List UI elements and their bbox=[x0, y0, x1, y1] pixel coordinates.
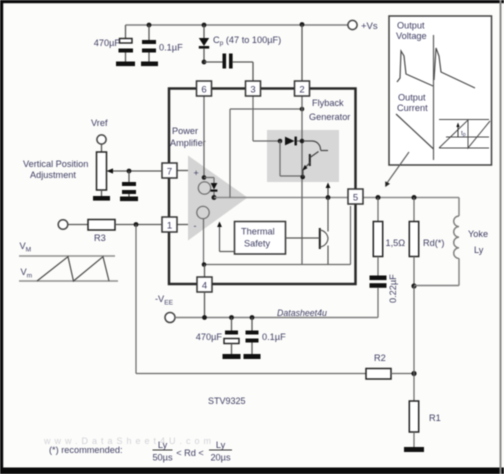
label Output Voltage bbox=[396, 21, 427, 42]
svg-text:2: 2 bbox=[299, 85, 304, 96]
svg-text:(*) recommended:: (*) recommended: bbox=[49, 445, 123, 455]
diode D internal bbox=[204, 178, 217, 198]
diode D1 bbox=[199, 25, 209, 62]
ground for 0.1uF top bbox=[141, 62, 158, 67]
svg-text:50µs: 50µs bbox=[152, 453, 173, 463]
label Vertical Position Adjustment bbox=[23, 159, 88, 180]
svg-text:Vref: Vref bbox=[91, 118, 108, 128]
svg-text:Flyback: Flyback bbox=[312, 98, 344, 108]
svg-text:Amplifier: Amplifier bbox=[170, 138, 206, 148]
node junction flyback diode anode bbox=[278, 139, 283, 144]
leader arrow from inset to pin5 node bbox=[385, 152, 409, 187]
formula recommended bbox=[49, 440, 232, 463]
pin 1 bbox=[162, 217, 177, 232]
svg-text:R3: R3 bbox=[94, 233, 106, 243]
ground for 470uF bottom bbox=[223, 354, 241, 359]
wire R2 to divider node bbox=[391, 373, 414, 375]
wire pin4 to -VEE rail bbox=[204, 292, 206, 318]
flyback generator shaded block bbox=[267, 130, 339, 182]
node junction Rd bottom bbox=[411, 283, 416, 288]
terminal Vref bbox=[97, 135, 106, 144]
svg-text:1: 1 bbox=[167, 221, 172, 232]
svg-text:Ly: Ly bbox=[158, 440, 168, 450]
wire pin2 feed to amp top bbox=[230, 109, 302, 198]
svg-text:5: 5 bbox=[353, 193, 358, 204]
wire pin1 to amp bbox=[177, 224, 188, 226]
wire pin2 to +Vs rail bbox=[301, 25, 303, 82]
node junction pin1 / feedback bbox=[134, 222, 139, 227]
wire thermal safety right bbox=[286, 237, 320, 239]
wire R1 to ground bbox=[413, 432, 415, 447]
node junction top rail / diode bbox=[202, 23, 207, 28]
wire lower rail to pin4 bbox=[203, 206, 351, 265]
ground for 0.1uF bottom bbox=[244, 354, 261, 359]
svg-text:1,5Ω: 1,5Ω bbox=[386, 238, 406, 248]
potentiometer vertical position bbox=[97, 144, 107, 196]
svg-text:Adjustment: Adjustment bbox=[30, 170, 76, 180]
capacitor C 470uF top bbox=[119, 25, 134, 62]
capacitor C 470uF bottom bbox=[224, 318, 239, 355]
svg-text:4: 4 bbox=[202, 281, 207, 292]
svg-text:Current: Current bbox=[397, 103, 428, 113]
node junction diode / Cp / pin6 bbox=[202, 60, 207, 65]
pin 4 bbox=[197, 277, 212, 292]
svg-text:Ly: Ly bbox=[474, 245, 484, 255]
label Power Amplifier bbox=[170, 126, 206, 148]
resistor Rd bbox=[409, 198, 418, 287]
svg-text:470µF: 470µF bbox=[196, 332, 223, 342]
capacitor Cp bbox=[204, 54, 253, 69]
svg-text:470µF: 470µF bbox=[94, 38, 121, 48]
terminal input VM bbox=[58, 220, 68, 230]
svg-text:Ly: Ly bbox=[216, 440, 226, 450]
svg-text:Rd(*): Rd(*) bbox=[423, 238, 444, 248]
capacitor C 0.22uF bbox=[370, 257, 387, 318]
svg-text:Datasheet4u: Datasheet4u bbox=[277, 308, 327, 318]
wire pin7 to amp bbox=[177, 170, 188, 172]
ground for 470uF top bbox=[116, 62, 135, 67]
resistor R1 bbox=[409, 401, 418, 432]
current source I2 bbox=[197, 206, 209, 218]
svg-text:Output: Output bbox=[397, 21, 425, 31]
wire sense arrow above output rail bbox=[326, 183, 331, 198]
wire wiper to pin7 bbox=[107, 168, 163, 173]
waveform output current bbox=[396, 114, 434, 149]
svg-text:3: 3 bbox=[250, 85, 255, 96]
capacitor C 0.1uF top bbox=[142, 25, 156, 62]
current source I1 bbox=[198, 182, 210, 194]
svg-text:+Vs: +Vs bbox=[361, 21, 378, 32]
wire pin3 to flyback bbox=[253, 96, 280, 141]
svg-text:0.1µF: 0.1µF bbox=[262, 332, 286, 342]
node junction bias bbox=[202, 175, 207, 180]
op-amp U1 power amplifier triangle bbox=[188, 156, 248, 241]
inset waveform box bbox=[389, 16, 492, 165]
wire pin4 internal bbox=[204, 265, 206, 278]
node junction pin4 net bbox=[202, 262, 207, 267]
wire top +Vs rail bbox=[126, 24, 349, 26]
node junction pin2 line bbox=[300, 107, 305, 112]
node junction Rd top bbox=[412, 195, 417, 200]
svg-text:Thermal: Thermal bbox=[241, 227, 275, 237]
svg-text:Vertical Position: Vertical Position bbox=[23, 159, 88, 169]
ground for R1 bbox=[404, 447, 424, 452]
capacitor C pin7 filter bbox=[122, 171, 136, 197]
node junction divider bbox=[411, 371, 416, 376]
svg-text:6: 6 bbox=[201, 85, 206, 96]
svg-text:-: - bbox=[194, 221, 197, 231]
svg-text:Output: Output bbox=[398, 93, 426, 103]
wire output rail to pin 5 bbox=[214, 197, 459, 199]
label Flyback Generator bbox=[309, 98, 350, 122]
svg-text:7: 7 bbox=[167, 167, 172, 178]
wire flyback lower loop bbox=[280, 141, 302, 176]
svg-text:Safety: Safety bbox=[244, 239, 270, 249]
svg-text:STV9325: STV9325 bbox=[208, 396, 246, 406]
node junction amp output bbox=[212, 195, 217, 200]
terminal +Vs bbox=[348, 20, 378, 32]
node junction flyback emitter bbox=[300, 175, 305, 180]
pin 7 bbox=[162, 163, 177, 178]
pin 2 bbox=[295, 81, 310, 96]
pin 5 bbox=[348, 189, 363, 204]
wire Cp to pin3 bbox=[252, 62, 254, 82]
wire R3 to pin1 bbox=[115, 224, 162, 226]
inductor yoke Ly bbox=[414, 198, 459, 286]
wire divider to R1 bbox=[413, 286, 415, 401]
waveform axis line bbox=[433, 35, 435, 160]
resistor 1.5 ohm bbox=[373, 198, 382, 257]
transistor Q2 output lower bbox=[320, 198, 328, 265]
waveform current detail inset bbox=[439, 120, 490, 149]
node junction top rail / 0.1uF bbox=[147, 23, 152, 28]
svg-text:0.22µF: 0.22µF bbox=[388, 274, 398, 303]
terminal -VEE bbox=[165, 313, 175, 323]
ground for pin7 filter cap bbox=[120, 197, 138, 202]
svg-text:< Rd <: < Rd < bbox=[176, 448, 204, 458]
svg-text:R1: R1 bbox=[429, 413, 441, 423]
svg-text:tp: tp bbox=[461, 130, 466, 138]
capacitor C 0.1uF bottom bbox=[246, 318, 259, 355]
node junction output rail sense bbox=[326, 195, 331, 200]
resistor R3 bbox=[88, 220, 115, 231]
diode D flyback bbox=[285, 137, 302, 146]
ground for potentiometer bbox=[93, 196, 110, 201]
label Yoke Ly bbox=[468, 229, 488, 255]
pin 6 bbox=[197, 81, 212, 96]
svg-text:Voltage: Voltage bbox=[396, 31, 427, 41]
wire input to R3 bbox=[68, 224, 88, 226]
waveform input sawtooth bbox=[19, 256, 118, 281]
svg-text:Yoke: Yoke bbox=[468, 229, 488, 239]
svg-text:Power: Power bbox=[172, 126, 198, 136]
svg-text:20µs: 20µs bbox=[210, 453, 231, 463]
wire current source to pin4 net bbox=[203, 219, 205, 265]
wire -VEE rail bbox=[175, 317, 378, 319]
wire pin6 internal bias bbox=[203, 96, 205, 178]
label Output Current bbox=[397, 93, 428, 114]
node junction wiper / cap bbox=[127, 169, 132, 174]
svg-text:0.1µF: 0.1µF bbox=[159, 43, 183, 53]
transistor Q1 flyback darlington bbox=[302, 141, 328, 177]
node junction top rail / pin2 bbox=[300, 22, 305, 27]
resistor R2 bbox=[366, 369, 391, 380]
wire thermal safety left arrow bbox=[217, 222, 234, 252]
svg-text:Generator: Generator bbox=[309, 112, 350, 122]
node junction flyback diode cathode bbox=[300, 139, 305, 144]
pin 3 bbox=[246, 81, 261, 96]
wire pin2 vertical into flyback bbox=[301, 96, 303, 265]
wire pin5 output node bbox=[376, 195, 381, 200]
svg-text:R2: R2 bbox=[374, 353, 386, 363]
node junction 470uF bottom bbox=[229, 315, 234, 320]
node junction pin4 / rail bbox=[202, 315, 207, 320]
wire feedback R3 node to R2 bbox=[136, 225, 366, 374]
waveform output voltage bbox=[397, 48, 475, 88]
thermal safety block bbox=[235, 222, 286, 255]
IC STV9325 outline bbox=[169, 89, 356, 285]
node junction 0.1uF bottom bbox=[250, 315, 255, 320]
svg-text:+: + bbox=[194, 168, 199, 178]
